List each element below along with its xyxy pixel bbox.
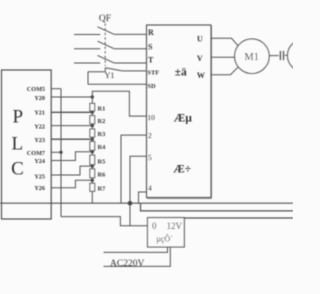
wire coupling to load: [285, 54, 289, 56]
svg-text:Æ÷: Æ÷: [173, 163, 191, 175]
svg-text:R5: R5: [98, 158, 106, 165]
wire right rail 3: [184, 217, 293, 219]
wire bottom rail full width: [0, 202, 293, 204]
wire contact Y1 to terminal STF: [122, 70, 146, 72]
svg-text:STF: STF: [147, 70, 159, 77]
svg-text:L: L: [11, 134, 23, 155]
svg-text:10: 10: [147, 113, 155, 122]
node J0 dot: [91, 95, 94, 98]
wire Y1 loop left: [87, 72, 89, 85]
svg-text:µçÔ´: µçÔ´: [156, 234, 173, 244]
breaker QF linkage dashed line: [104, 24, 106, 67]
PLC box: [2, 70, 52, 219]
wire common rail lower run: [61, 217, 148, 226]
svg-text:Æµ: Æµ: [174, 113, 193, 125]
wire pole2 to terminal S: [114, 48, 146, 50]
wire pole1 to terminal R: [114, 33, 146, 35]
svg-text:Y22: Y22: [34, 123, 45, 130]
svg-text:Y26: Y26: [34, 185, 45, 192]
node J5 dot: [91, 164, 94, 167]
wire Y20 to node J0: [51, 96, 92, 98]
wire Y1 loop bottom to terminal SD: [88, 83, 147, 85]
resistor R6: [90, 169, 95, 178]
svg-text:M1: M1: [244, 52, 259, 63]
wire V to motor: [211, 56, 235, 58]
node J4 dot: [91, 150, 94, 153]
wire common rail vertical: [60, 89, 62, 217]
svg-text:COM5: COM5: [27, 86, 45, 93]
wire L2 phase stub: [74, 48, 100, 50]
svg-text:R4: R4: [98, 144, 107, 151]
contact Y1 fixed terminal tick: [104, 68, 106, 72]
wire pole3 to terminal T: [114, 62, 146, 64]
resistor R2: [90, 116, 95, 124]
inverter bottom shadow edge: [147, 26, 212, 199]
wire motor to coupling: [269, 55, 279, 57]
svg-text:Y1: Y1: [105, 71, 115, 80]
svg-text:R7: R7: [98, 186, 107, 193]
svg-text:Y25: Y25: [34, 174, 45, 181]
wire Y23 to node J3: [51, 138, 92, 140]
wire node J0 to pin 10: [92, 91, 146, 116]
resistor R7: [90, 183, 95, 191]
svg-text:R: R: [148, 28, 154, 37]
contact Y1 blade: [105, 68, 122, 71]
svg-text:5: 5: [148, 153, 152, 162]
breaker QF pole 3 blade: [98, 55, 115, 63]
motor M1 circle: [235, 39, 270, 74]
svg-text:COM7: COM7: [27, 150, 45, 157]
svg-text:Y24: Y24: [34, 158, 45, 165]
wire U to motor: [211, 38, 239, 46]
node bottom rail junction dot: [128, 201, 133, 206]
svg-text:2: 2: [148, 131, 152, 140]
svg-text:C: C: [11, 159, 24, 180]
node J3 dot: [91, 138, 94, 141]
node J2 dot: [91, 124, 94, 127]
svg-text:V: V: [197, 54, 203, 63]
resistor R5: [90, 155, 95, 165]
svg-text:Y23: Y23: [34, 137, 45, 144]
breaker QF pole 1 blade: [98, 27, 115, 35]
node J1 dot: [91, 111, 94, 114]
wire L3 phase stub: [74, 62, 100, 64]
wire W to motor: [211, 67, 238, 75]
wire Y24 step to node J4: [51, 152, 92, 161]
node J6 dot: [91, 179, 94, 182]
svg-text:4: 4: [148, 184, 152, 193]
svg-text:R6: R6: [98, 172, 107, 179]
wire resistor chain: [91, 97, 93, 203]
svg-text:T: T: [148, 56, 154, 65]
wire L1 phase stub: [74, 34, 100, 36]
coupling bar 2: [283, 51, 285, 60]
wire COM5 to common rail: [51, 88, 61, 90]
load machine circle (cut off): [288, 40, 320, 72]
svg-text:SD: SD: [147, 83, 156, 90]
resistor R3: [90, 129, 95, 137]
wire Y22 to node J2: [51, 125, 92, 127]
wire pin 2 down to bottom rail: [121, 135, 147, 203]
svg-text:12V: 12V: [167, 221, 183, 231]
svg-text:U: U: [197, 35, 203, 44]
wire COM7 to common rail: [51, 151, 61, 153]
resistor R1: [90, 103, 95, 111]
svg-text:W: W: [197, 71, 205, 80]
wire rail step to right rail 2: [141, 203, 294, 211]
wire Y1 loop top: [88, 71, 105, 73]
breaker QF pole 2 blade: [98, 41, 115, 49]
svg-text:QF: QF: [99, 14, 111, 24]
svg-text:R3: R3: [98, 131, 106, 138]
inverter U1 box: [147, 25, 212, 198]
wire Y21 to node J1: [51, 111, 92, 113]
power supply 12V box: [148, 218, 185, 247]
wire pin 4 down to bottom rail: [139, 192, 147, 203]
svg-text:±ä: ±ä: [175, 67, 187, 79]
svg-text:AC220V: AC220V: [110, 259, 144, 269]
svg-text:Y21: Y21: [34, 110, 45, 117]
svg-text:R1: R1: [98, 106, 106, 113]
node COM7 junction dot: [59, 151, 62, 154]
svg-text:P: P: [13, 107, 24, 128]
resistor R4: [90, 142, 95, 151]
svg-text:Y20: Y20: [34, 95, 45, 102]
wire Y25 step to node J5: [51, 166, 92, 175]
svg-text:S: S: [148, 42, 153, 51]
wire AC input upper: [104, 247, 168, 252]
wire AC input lower: [104, 247, 171, 266]
wire Y26 step to node J6: [51, 180, 92, 187]
svg-text:0: 0: [152, 221, 157, 231]
wire pin 5 down to 12V supply: [130, 156, 147, 226]
coupling bar 1: [279, 51, 281, 60]
svg-text:R2: R2: [98, 118, 106, 125]
